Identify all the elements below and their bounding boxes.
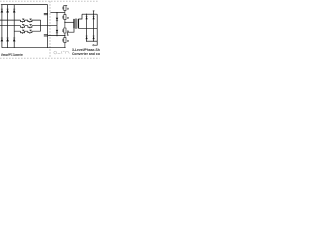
node primary return terminal: [67, 35, 68, 36]
wire phase C input row: [14, 30, 40, 32]
diode D1 top leg A: [1, 9, 4, 12]
transistor Q6 row C right: [28, 30, 32, 34]
node stack clamp dot: [64, 35, 65, 36]
diode D9 col1 upper: [86, 16, 88, 19]
transistor S2: [63, 13, 69, 23]
transistor Q5 row C left: [21, 30, 25, 34]
diode D8 clamp lower: [56, 30, 58, 33]
wire rectifier bottom rail: [87, 40, 98, 42]
wire neutral bus vertical: [40, 20, 42, 31]
transistor S3: [63, 22, 69, 35]
wire secondary top lead: [78, 14, 82, 19]
diode D12 col2 lower: [93, 36, 95, 39]
transistor S4: [63, 36, 69, 48]
diode D2 top leg B: [6, 9, 9, 12]
node stack output dot: [64, 22, 65, 23]
diode D11 col1 lower: [86, 36, 88, 39]
logo certification marks gray: [54, 51, 69, 54]
node clamp bottom dot: [56, 35, 57, 36]
wire clamp chain vertical: [56, 13, 58, 36]
capacitor C1 plates: [44, 13, 48, 14]
wire secondary bottom / mid rail: [78, 27, 97, 29]
wire column 2 top stub: [93, 11, 95, 14]
wire rectifier column 1: [86, 14, 88, 41]
wire neutral M to right box: [41, 25, 57, 27]
transformer T1 secondary winding: [77, 19, 79, 29]
dashed border bottom: [0, 57, 100, 59]
diode D3 top leg C: [13, 9, 16, 12]
diode D10 col2 upper: [93, 16, 95, 19]
transistor S1: [63, 5, 69, 12]
wire DC- bottom rail: [2, 47, 66, 49]
diode D6 bottom leg C: [13, 38, 16, 41]
transistor Q4 row B right: [28, 25, 32, 29]
label 3-Level Phase-Shifted caption: [72, 49, 107, 56]
wire phase B input row: [0, 25, 41, 27]
wire rectifier column 2: [93, 14, 95, 41]
label Vienna PFC Converter: [1, 53, 23, 57]
node output terminal circle: [93, 45, 94, 46]
wire stack output to transformer: [65, 21, 74, 23]
node rect top dots: [86, 14, 87, 15]
wire DC+ top rail: [1, 4, 48, 6]
transistor Q2 row A right: [28, 19, 32, 23]
transformer T1 primary winding: [73, 19, 75, 29]
wire rectifier top rail: [82, 13, 97, 15]
node junction dot: [56, 12, 57, 13]
wire phase leg C vertical: [13, 5, 15, 48]
wire right box DC+: [50, 12, 65, 14]
wire phase leg A vertical: [1, 5, 3, 48]
wire phase A input row: [0, 19, 41, 21]
wire primary return: [68, 28, 74, 34]
diode D7 clamp upper: [56, 18, 58, 21]
node rect bottom dots: [86, 41, 87, 42]
diode D4 bottom leg A: [1, 38, 4, 41]
wire clamp bottom to stack: [48, 35, 65, 37]
diode D5 bottom leg B: [6, 38, 9, 41]
dashed border top: [0, 0, 98, 2]
wire phase leg B vertical: [7, 5, 9, 48]
wire DC+ corner drop / cap string vertical: [47, 5, 49, 48]
transformer T1 core: [76, 19, 77, 29]
capacitor C2 plates: [44, 35, 48, 36]
dashed border mid vertical: [49, 1, 51, 58]
transistor Q3 row B left: [21, 25, 25, 29]
wire output right vertical: [94, 14, 97, 45]
transistor Q1 row A left: [21, 19, 25, 23]
